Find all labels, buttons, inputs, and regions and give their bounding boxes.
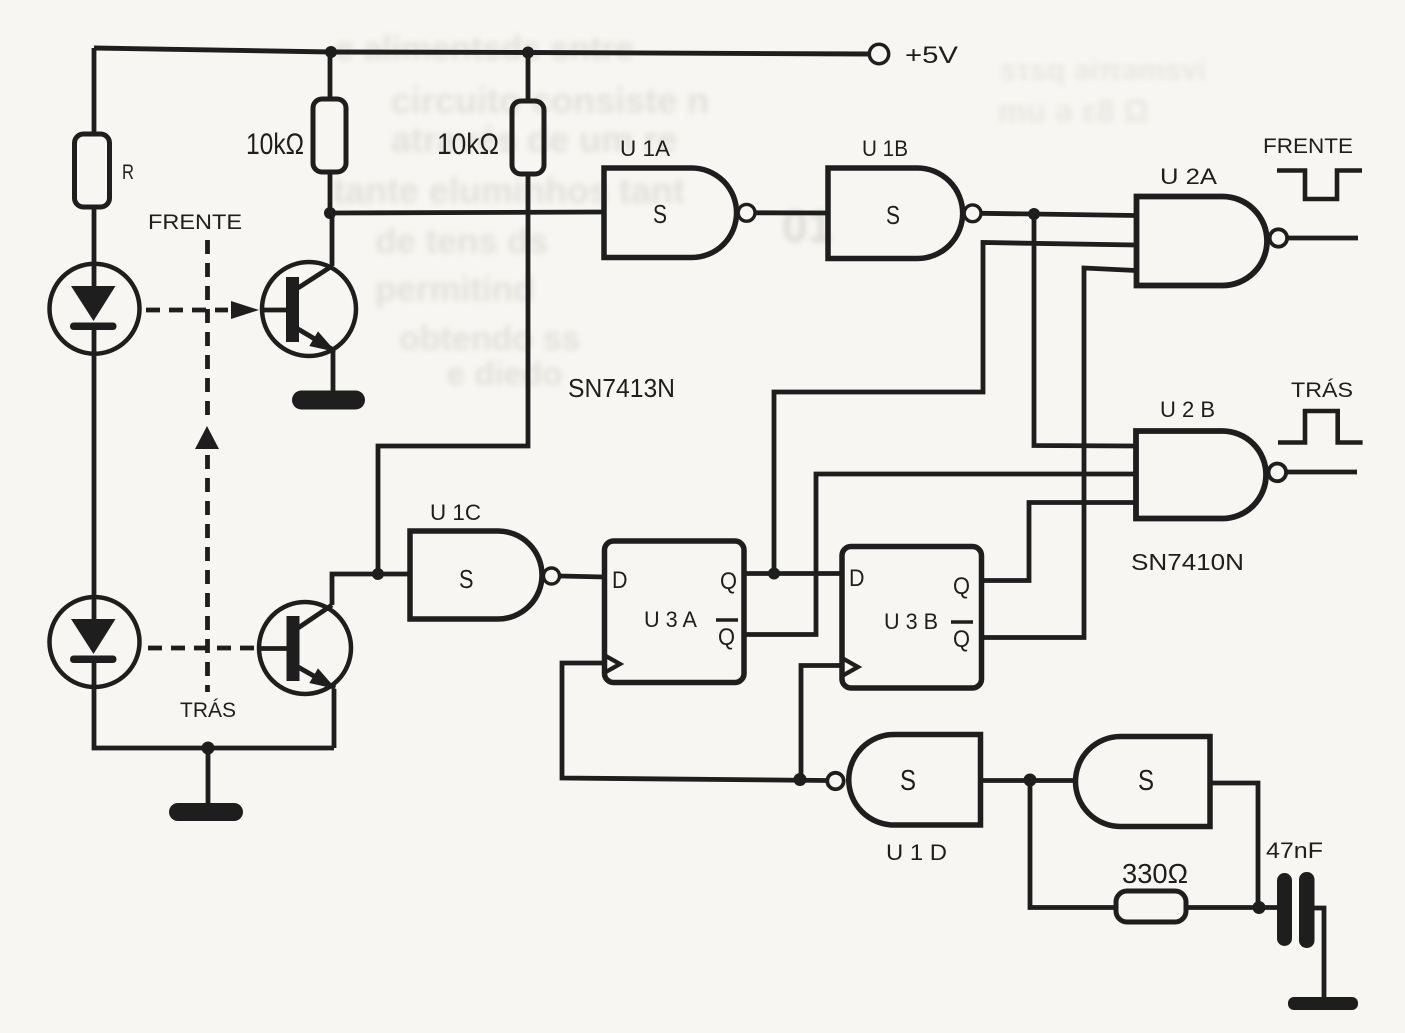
capacitor C1 47nF xyxy=(1277,872,1315,948)
wire Q1 emitter to ground xyxy=(331,351,336,391)
wire U1B output to U2A input1 xyxy=(982,213,1136,215)
gate U1E oscillator mirrored xyxy=(1076,737,1210,827)
bubble U2A xyxy=(1270,229,1287,246)
svg-text:U 2A: U 2A xyxy=(1160,164,1217,189)
svg-text:47nF: 47nF xyxy=(1266,838,1323,863)
svg-text:S: S xyxy=(653,199,667,229)
svg-text:sτsq əiπəmsvi: sτsq əiπəmsvi xyxy=(1000,54,1206,87)
svg-text:TRÁS: TRÁS xyxy=(1291,379,1353,402)
svg-text:U 3 A: U 3 A xyxy=(644,607,697,632)
svg-text:de tens ds: de tens ds xyxy=(375,222,548,261)
transistor Q1 xyxy=(262,262,356,356)
wire 330R to capacitor xyxy=(1186,905,1277,910)
svg-text:D: D xyxy=(612,567,628,594)
wire R to photodiode D1 xyxy=(92,207,97,287)
dashed vertical direction line upper xyxy=(205,240,210,423)
wire rail to 10k R3 xyxy=(526,53,531,102)
clock chevron U3B xyxy=(842,658,858,676)
resistor R xyxy=(75,134,110,207)
svg-text:S: S xyxy=(1138,765,1154,797)
node junction on rail at 10k R2 xyxy=(325,46,337,58)
ground bar left xyxy=(169,803,243,821)
waveform TRAS pulse xyxy=(1278,411,1363,443)
node junction oscillator clocks xyxy=(794,773,807,786)
dashed vertical direction line lower xyxy=(205,455,210,692)
resistor 10k R2 xyxy=(313,99,346,172)
bubble U1B xyxy=(964,205,981,222)
wire node riser to U3B clock xyxy=(801,666,842,780)
gate U2A xyxy=(1137,197,1268,286)
wire node to U1A input xyxy=(330,212,604,213)
gate U1B xyxy=(828,168,963,259)
svg-text:e alimentsds sntre: e alimentsds sntre xyxy=(335,30,634,68)
clock chevron U3A xyxy=(604,655,620,673)
svg-text:obtendo ss: obtendo ss xyxy=(399,320,580,358)
wire U1C output to U3A D xyxy=(560,576,604,577)
wire U3A Q to U3B D xyxy=(744,571,842,576)
wire node down to 330R xyxy=(1030,780,1116,908)
svg-text:mu ə ε8 Ω: mu ə ε8 Ω xyxy=(998,93,1149,129)
node junction U3A Q xyxy=(768,568,780,580)
node junction U1C input xyxy=(372,568,384,580)
wire Q1 collector to node xyxy=(330,213,335,266)
wire 10k R3 down and over to U1C node xyxy=(378,174,528,573)
photodiode D2 xyxy=(50,597,140,687)
svg-text:Q: Q xyxy=(718,624,735,651)
svg-text:S: S xyxy=(886,200,900,230)
wire U1A to U1B xyxy=(756,210,828,215)
node junction on rail at 10k R3 xyxy=(522,47,534,59)
dashed light path D1 to Q1 xyxy=(146,308,228,313)
svg-text:e diedo: e diedo xyxy=(447,355,563,392)
wire U3A Qbar to U2B input2 xyxy=(744,474,1136,635)
+5V terminal circle xyxy=(869,44,888,63)
svg-text:U 1 D: U 1 D xyxy=(886,840,947,865)
wire ground stem xyxy=(206,748,211,803)
wire +5V top rail xyxy=(94,48,869,54)
svg-text:10kΩ: 10kΩ xyxy=(437,128,499,161)
wire U2B output xyxy=(1287,470,1357,475)
svg-text:Q: Q xyxy=(953,573,970,600)
svg-text:U 1A: U 1A xyxy=(620,136,670,161)
svg-text:Q: Q xyxy=(720,568,737,595)
wire U3A clock to oscillator node xyxy=(562,663,827,781)
svg-text:tante eluminhos tant: tante eluminhos tant xyxy=(333,170,685,211)
node junction Q1 collector xyxy=(324,207,336,219)
bubble U1D xyxy=(827,773,843,789)
wire D2 to bottom rail xyxy=(94,662,334,748)
flip-flop U3B xyxy=(842,547,982,689)
svg-text:FRENTE: FRENTE xyxy=(148,211,242,234)
wire Q2 emitter to bottom rail xyxy=(332,689,337,748)
transistor Q2 xyxy=(259,602,351,694)
wire Q2 collector up to U1C input xyxy=(332,574,410,605)
bubble U1C xyxy=(544,568,560,584)
svg-text:Q: Q xyxy=(953,626,970,653)
svg-text:U 2 B: U 2 B xyxy=(1160,397,1215,422)
bubble U2B xyxy=(1269,464,1287,482)
photodiode D1 xyxy=(50,264,140,354)
svg-text:D: D xyxy=(849,565,865,592)
flip-flop U3A xyxy=(605,541,745,683)
wire 10k R2 to node xyxy=(328,172,333,213)
wire U3B Qbar to U2A input3 xyxy=(981,268,1136,638)
svg-text:SN7413N: SN7413N xyxy=(568,373,675,403)
node junction bottom rail ground xyxy=(202,742,215,755)
svg-text:10kΩ: 10kΩ xyxy=(246,128,304,161)
wire U3B Q to U2B input3 xyxy=(981,503,1136,581)
overbar Qbar U3A xyxy=(716,618,738,622)
gate U2B xyxy=(1136,431,1266,519)
resistor 10k R3 xyxy=(512,101,544,174)
svg-text:circuito consiste n: circuito consiste n xyxy=(391,80,709,121)
svg-text:+5V: +5V xyxy=(905,42,958,69)
bubble U1A xyxy=(738,204,755,221)
wire capacitor to ground xyxy=(1314,908,1324,999)
node junction U1B output xyxy=(1028,208,1040,220)
svg-text:FRENTE: FRENTE xyxy=(1263,135,1353,158)
resistor 330R xyxy=(1116,891,1186,922)
ground bar Q1 xyxy=(292,391,365,410)
svg-text:S: S xyxy=(900,765,916,797)
node junction oscillator feedback xyxy=(1024,774,1037,787)
svg-text:330Ω: 330Ω xyxy=(1122,858,1188,889)
dashed light path D2 to Q2 xyxy=(148,646,256,651)
svg-text:U 1C: U 1C xyxy=(430,500,481,525)
wire D1 to photodiode D2 xyxy=(92,329,97,620)
wire node down to U2B input1 xyxy=(1034,214,1136,446)
wire rail to resistor R xyxy=(92,48,97,134)
wire U1D to oscillator gate xyxy=(981,778,1076,783)
svg-text:U 3 B: U 3 B xyxy=(884,609,938,634)
arrowhead light path Q1 xyxy=(231,301,259,319)
svg-text:S: S xyxy=(459,564,474,594)
ground bar right xyxy=(1288,997,1358,1010)
gate U1C xyxy=(410,531,542,619)
wire U2A output xyxy=(1288,236,1358,241)
wire U3A Q riser to U2A input2 xyxy=(774,243,1136,574)
arrowhead direction up xyxy=(195,426,219,449)
waveform FRENTE pulse xyxy=(1277,171,1362,200)
ghost showthrough text block left xyxy=(333,30,709,392)
svg-text:TRÁS: TRÁS xyxy=(180,699,236,722)
svg-text:R: R xyxy=(122,161,134,184)
ghost showthrough text block top right xyxy=(998,54,1206,129)
wire rail to 10k R2 xyxy=(328,52,333,99)
gate U1D mirrored xyxy=(849,735,981,826)
gate U1A xyxy=(604,168,737,258)
svg-text:SN7410N: SN7410N xyxy=(1131,549,1244,575)
svg-text:permitind: permitind xyxy=(375,270,534,309)
svg-text:U 1B: U 1B xyxy=(862,136,908,161)
overbar Qbar U3B xyxy=(951,620,973,624)
node junction capacitor xyxy=(1253,901,1266,914)
wire oscillator gate right side down xyxy=(1210,783,1258,908)
